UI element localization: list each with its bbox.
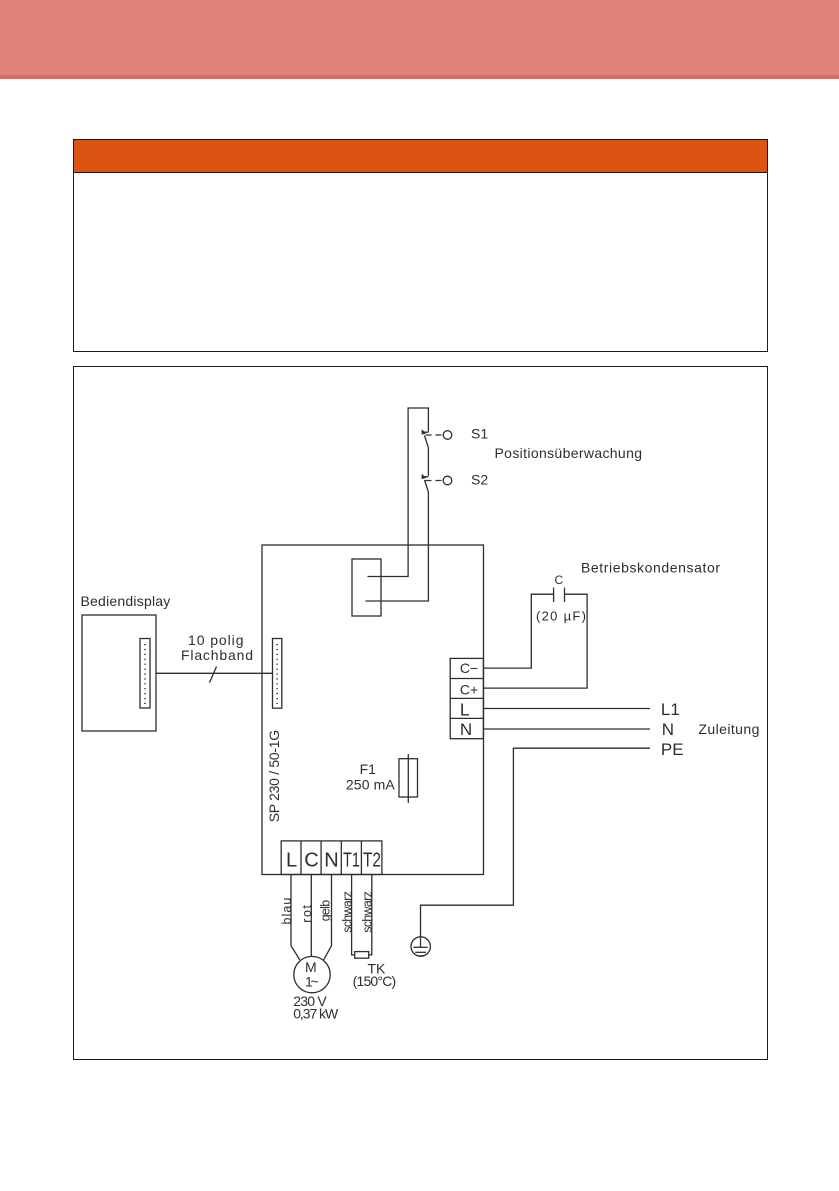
label 0,37 kW (293, 1006, 339, 1022)
svg-text:F1: F1 (360, 761, 377, 777)
label Betriebskondensator (581, 560, 720, 576)
svg-text:Flachband: Flachband (181, 647, 253, 663)
label schwarz (left, rotated) (340, 891, 354, 933)
svg-text:N: N (324, 850, 338, 872)
wire C- to capacitor (483, 594, 553, 668)
thermal contact TK (355, 952, 369, 959)
switch S1 (NC position switch) (422, 429, 452, 447)
svg-text:10 polig: 10 polig (188, 632, 244, 648)
wire N (483, 728, 650, 730)
top salmon band (0, 0, 839, 75)
svg-text:Zuleitung: Zuleitung (698, 721, 759, 737)
svg-text:schwarz: schwarz (360, 891, 374, 933)
svg-text:L: L (460, 700, 470, 720)
svg-text:C: C (304, 850, 318, 872)
label schwarz (right, rotated) (360, 891, 374, 933)
wire schwarz T2 (369, 875, 372, 955)
wire L1 (483, 708, 650, 710)
wire schwarz T1 (352, 875, 355, 955)
diagram outer box (73, 366, 768, 1060)
wire rot (C to motor) (310, 875, 312, 957)
svg-text:SP 230 / 50-1G: SP 230 / 50-1G (266, 730, 282, 823)
terminal block L C N T1 T2 (281, 841, 382, 875)
label Positionsueberwachung (495, 445, 643, 461)
svg-text:gelb: gelb (319, 900, 333, 922)
wire C+ to capacitor (483, 594, 587, 688)
svg-text:PE: PE (661, 740, 684, 759)
display connector strip (140, 639, 150, 709)
connector X1 (position switch header) (352, 559, 381, 616)
wire blau (L to motor) (291, 875, 300, 960)
svg-text:schwarz: schwarz (340, 891, 354, 933)
label blau (rotated) (280, 898, 294, 925)
terminal labels L C N T1 T2 (286, 850, 381, 872)
svg-text:0,37 kW: 0,37 kW (293, 1006, 339, 1022)
label SP 230 / 50-1G (rotated) (266, 730, 282, 823)
svg-text:S1: S1 (471, 426, 488, 442)
label rot (rotated) (300, 904, 314, 922)
label L1 (661, 700, 680, 719)
svg-text:N: N (662, 720, 674, 739)
motor M1 (294, 956, 330, 992)
main controller box U1 (262, 545, 484, 875)
wire: S2 down to connector pin2 (366, 492, 429, 601)
svg-text:(20 µF): (20 µF) (536, 609, 586, 624)
svg-text:(150°C): (150°C) (353, 973, 397, 989)
label 10 polig (188, 632, 244, 648)
svg-text:L1: L1 (661, 700, 680, 719)
svg-text:M: M (305, 959, 317, 975)
svg-text:1~: 1~ (305, 974, 319, 990)
label (20 uF) (536, 609, 586, 624)
display box (Bediendisplay) (82, 615, 156, 731)
terminal labels C- C+ L N (460, 660, 478, 739)
svg-text:rot: rot (300, 904, 314, 922)
svg-text:Positionsüberwachung: Positionsüberwachung (495, 445, 643, 461)
label F1 (360, 761, 377, 777)
terminal block C- C+ L N (450, 658, 483, 738)
svg-text:L: L (286, 850, 297, 872)
svg-text:Bediendisplay: Bediendisplay (81, 593, 171, 609)
label C (555, 573, 564, 587)
label PE (661, 740, 684, 759)
switch S2 (NC position switch) (422, 474, 452, 492)
multiwire slash (210, 667, 217, 683)
wire gelb (N to motor) (324, 875, 332, 960)
svg-text:N: N (460, 720, 472, 739)
capacitor C plates (554, 588, 565, 603)
controller connector strip (273, 639, 282, 709)
label S2 (471, 471, 488, 487)
svg-text:blau: blau (280, 898, 294, 925)
ground symbol (PE earth) (411, 937, 430, 956)
label 230 V (293, 993, 327, 1009)
label Bediendisplay (81, 593, 171, 609)
svg-text:S2: S2 (471, 471, 488, 487)
svg-text:T1: T1 (343, 850, 360, 872)
svg-text:C+: C+ (460, 681, 478, 697)
svg-text:T2: T2 (363, 850, 381, 872)
header box with orange title bar (73, 139, 768, 352)
svg-text:C−: C− (460, 660, 478, 676)
label (150degC) (353, 973, 397, 989)
label 250 mA (346, 777, 395, 793)
label S1 (471, 426, 488, 442)
label Zuleitung (698, 721, 759, 737)
svg-text:C: C (555, 573, 564, 587)
fuse F1 (399, 754, 418, 803)
label N (Zuleitung) (662, 720, 674, 739)
wire PE to ground (421, 748, 651, 947)
label Flachband (181, 647, 253, 663)
label gelb (rotated) (319, 900, 333, 922)
wire: connector pin1 up and across top to S1 (368, 408, 429, 577)
svg-text:250 mA: 250 mA (346, 777, 395, 793)
wire: S1 to S2 (427, 447, 429, 476)
ribbon cable wire (156, 672, 273, 674)
label TK (368, 961, 387, 977)
svg-text:Betriebskondensator: Betriebskondensator (581, 560, 720, 576)
